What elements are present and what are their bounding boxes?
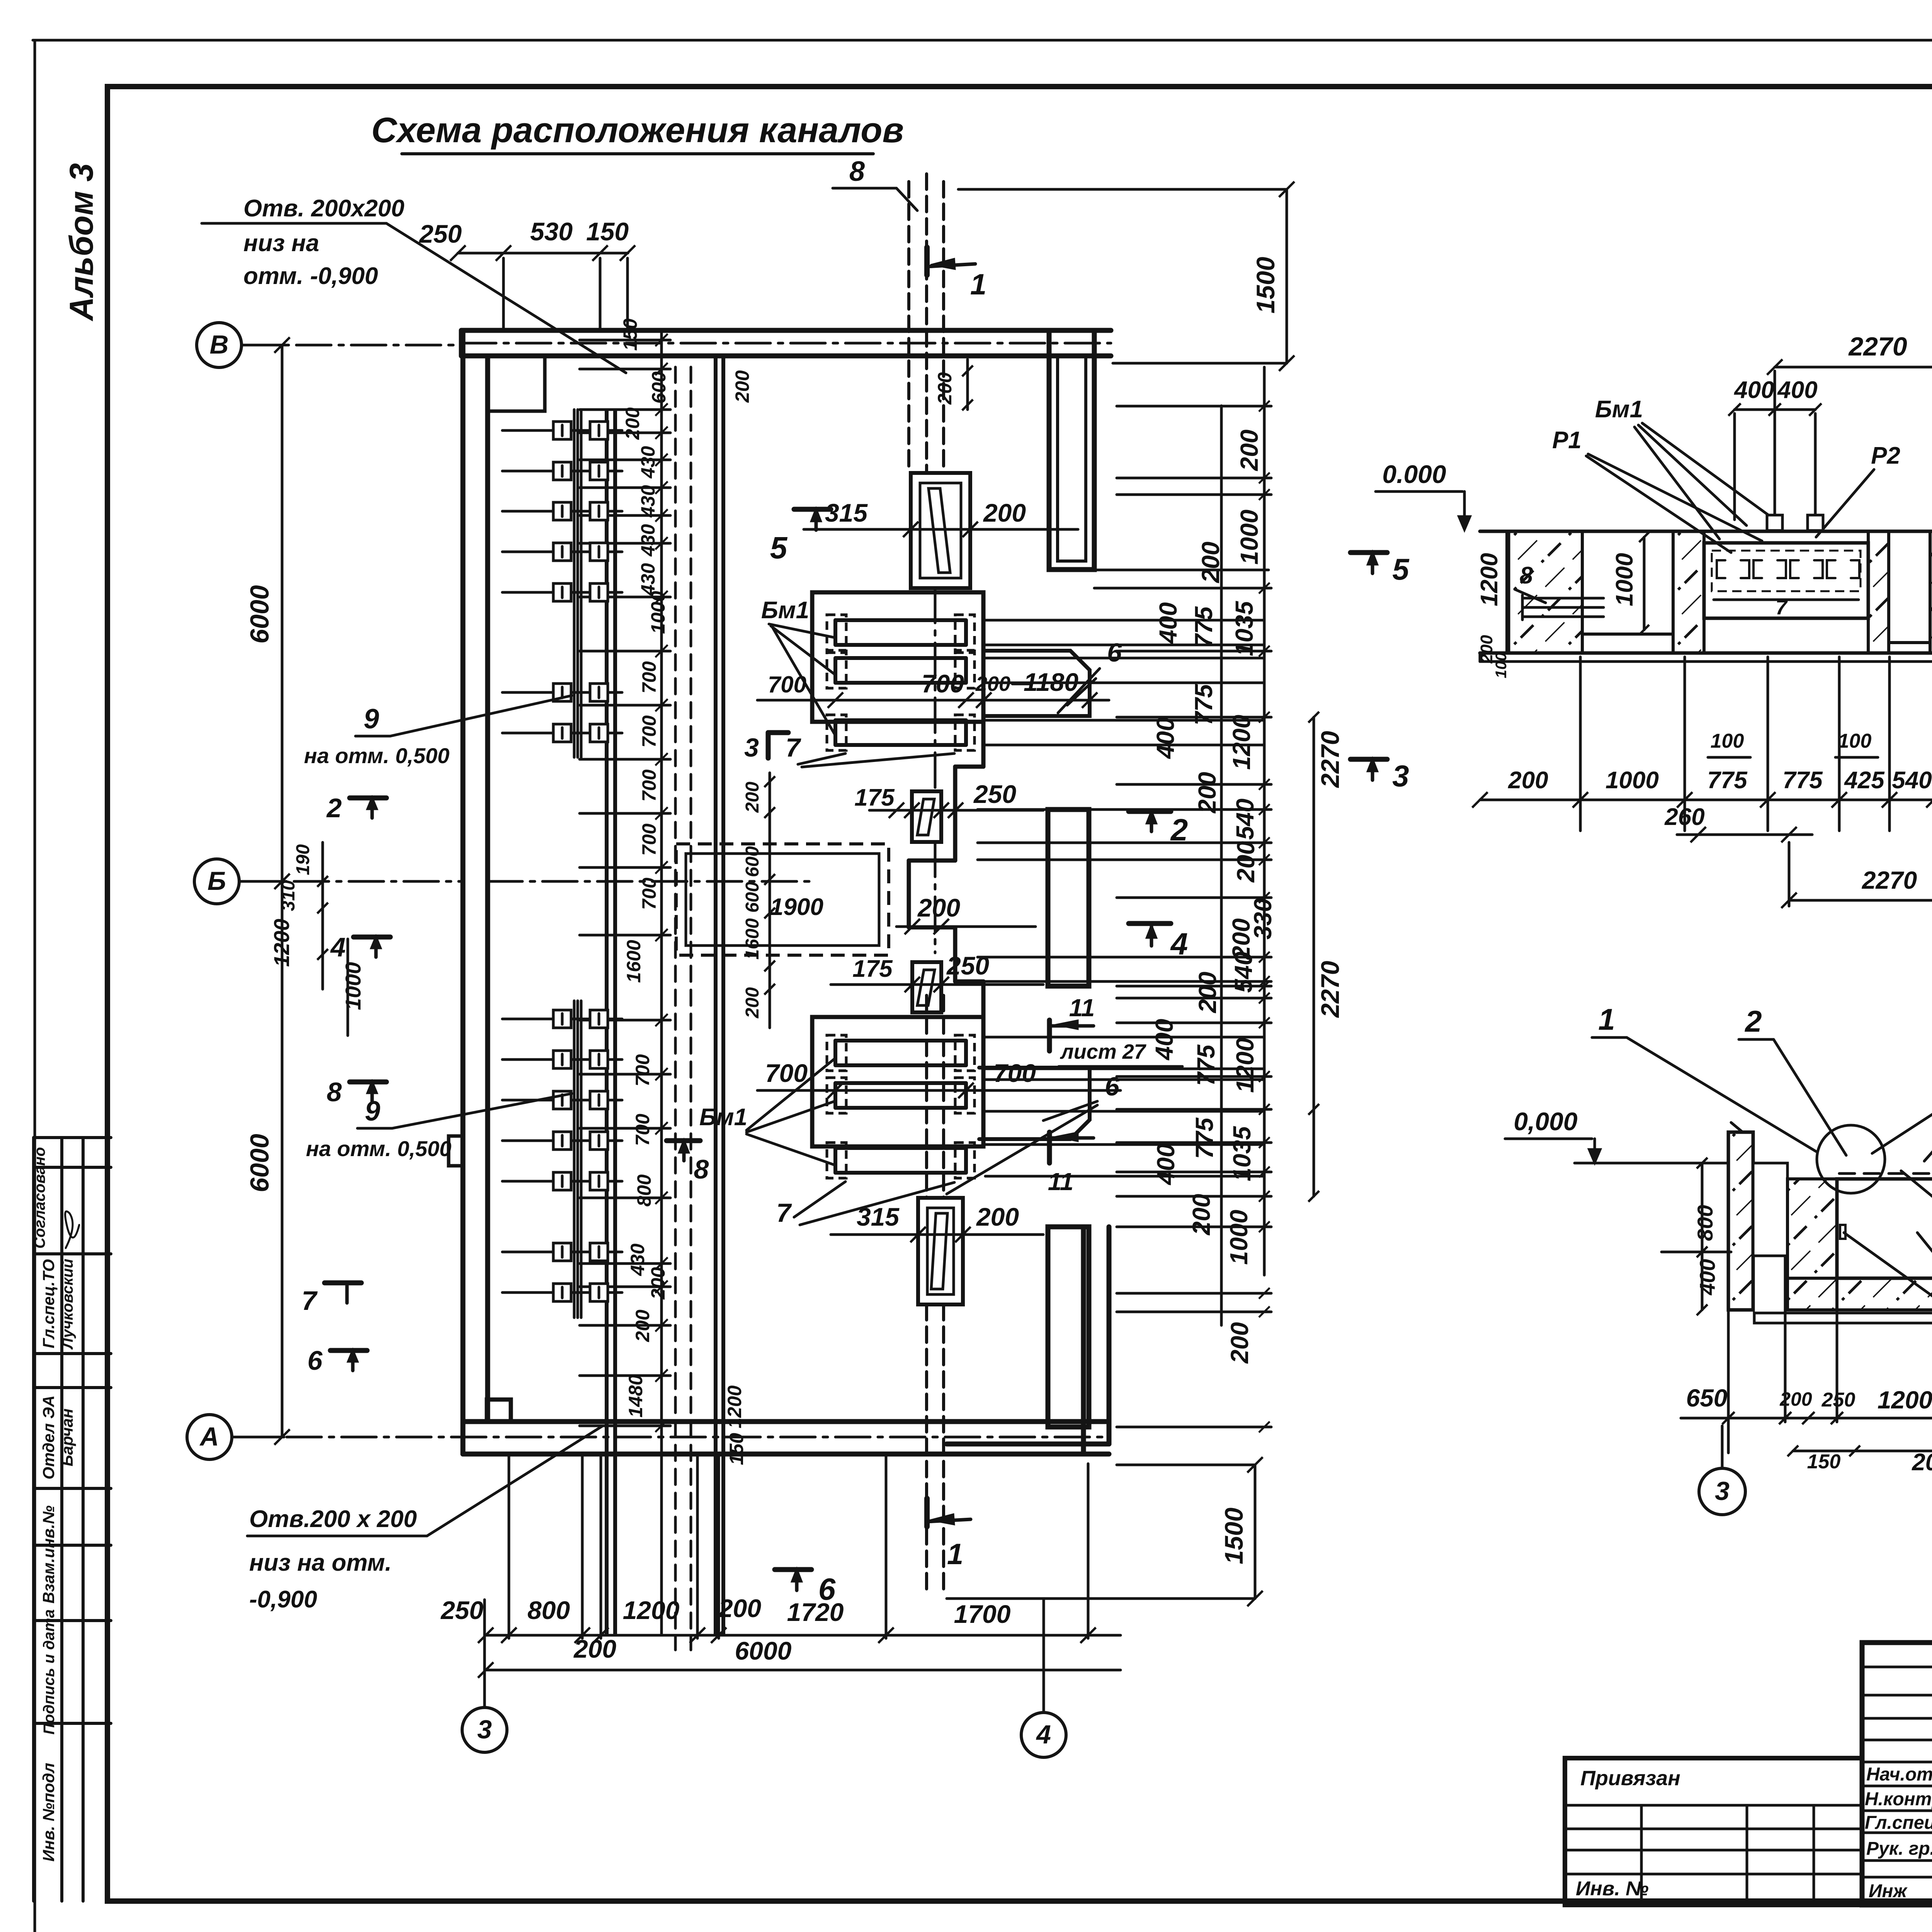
svg-text:2: 2 (326, 793, 342, 823)
svg-text:800: 800 (633, 1174, 655, 1207)
svg-text:775: 775 (1190, 1117, 1218, 1159)
pipe dashed top (907, 182, 910, 473)
svg-text:Отв.200 х 200: Отв.200 х 200 (249, 1506, 417, 1532)
corridor wall right (714, 356, 718, 1634)
svg-text:Нач.отд: Нач.отд (1866, 1764, 1932, 1785)
plan left wall inner (485, 356, 490, 1422)
anchor bolt row (502, 1291, 622, 1294)
svg-text:8: 8 (694, 1154, 709, 1184)
section2 pier (1787, 1179, 1837, 1310)
plan bottom wall notch (487, 1400, 511, 1422)
section mark 11 list27 (1047, 1020, 1052, 1051)
stepped channel throat walls (981, 718, 986, 767)
section marker 5 plan (794, 507, 831, 512)
svg-text:1: 1 (1598, 1002, 1615, 1036)
svg-text:400: 400 (1777, 377, 1817, 403)
section marker 4 (1129, 921, 1171, 926)
svg-text:3: 3 (1392, 759, 1409, 793)
lower assembly arm (979, 1068, 1090, 1139)
svg-text:4: 4 (330, 932, 346, 962)
section marker 6 (330, 1348, 367, 1353)
axis V (197, 323, 241, 367)
cut marker 5 (1350, 550, 1387, 555)
section mark 1 bottom (924, 1498, 930, 1527)
svg-text:7: 7 (776, 1198, 792, 1228)
svg-text:200: 200 (622, 407, 643, 440)
svg-text:775: 775 (1190, 684, 1218, 725)
svg-text:лист 27: лист 27 (1060, 1040, 1147, 1063)
central pit dashed (676, 844, 889, 955)
floor slot (911, 473, 970, 588)
svg-text:700: 700 (638, 769, 660, 802)
svg-text:400: 400 (1695, 1259, 1719, 1295)
section2 base plate left (1754, 1313, 1932, 1323)
svg-text:Рук. гр.: Рук. гр. (1866, 1838, 1932, 1859)
svg-text:6: 6 (1107, 638, 1122, 667)
corridor dashed channel (674, 367, 677, 1650)
section1 left dims (1508, 531, 1510, 653)
stamp signature (65, 1211, 79, 1248)
svg-text:400: 400 (1733, 377, 1774, 403)
svg-text:200: 200 (718, 1594, 761, 1622)
svg-text:0.000: 0.000 (1382, 460, 1446, 488)
section2 bottom dims (1681, 1417, 1932, 1420)
svg-text:Барчан: Барчан (58, 1408, 76, 1466)
section mark 1 top (924, 247, 930, 275)
beam bar (835, 1081, 966, 1085)
svg-text:1035: 1035 (1228, 1126, 1256, 1181)
svg-text:775: 775 (1190, 606, 1218, 648)
svg-text:В: В (209, 330, 228, 359)
plan centre axis vertical (934, 588, 937, 791)
pipes 8 left (1522, 597, 1604, 600)
svg-text:100: 100 (1493, 653, 1510, 679)
svg-text:400: 400 (1152, 1144, 1180, 1186)
svg-text:1200: 1200 (1231, 1038, 1259, 1093)
svg-text:200: 200 (742, 987, 763, 1019)
dim 1500 top right (1286, 189, 1288, 363)
svg-text:1600: 1600 (742, 918, 763, 959)
anchor bolt row (502, 1251, 622, 1253)
section1 base prep (1480, 660, 1932, 663)
svg-text:0,000: 0,000 (1514, 1107, 1577, 1136)
corridor dimension chain (660, 332, 663, 1634)
anchor bolt row (502, 510, 622, 513)
svg-text:2270: 2270 (1848, 332, 1907, 361)
section1 pier (1673, 531, 1704, 653)
svg-text:Согласовано: Согласовано (31, 1147, 48, 1249)
svg-text:700: 700 (768, 672, 806, 697)
svg-text:1200: 1200 (269, 919, 294, 967)
upper assembly arm (984, 651, 1090, 716)
svg-text:530: 530 (530, 217, 573, 246)
svg-text:250: 250 (1821, 1389, 1855, 1411)
svg-text:250: 250 (973, 780, 1016, 808)
bar extension lines (985, 619, 1264, 622)
anchor bolt (1767, 515, 1782, 531)
svg-text:Бм1: Бм1 (1595, 396, 1643, 423)
svg-text:190: 190 (293, 844, 313, 875)
svg-text:200: 200 (1235, 430, 1263, 471)
svg-text:425: 425 (1844, 767, 1885, 794)
anchor bolt row (502, 551, 622, 553)
svg-text:600: 600 (742, 846, 763, 877)
anchor bolt row (502, 732, 622, 735)
beam bar (835, 618, 966, 622)
svg-text:150: 150 (619, 318, 641, 351)
svg-text:8: 8 (1520, 562, 1533, 589)
svg-text:отм. -0,900: отм. -0,900 (243, 263, 378, 289)
plan left wall outer (461, 330, 466, 1454)
svg-text:150: 150 (1807, 1451, 1841, 1473)
svg-text:700: 700 (922, 669, 964, 698)
floor slot (912, 962, 941, 1012)
svg-text:260: 260 (1664, 804, 1704, 830)
svg-text:4: 4 (1036, 1720, 1051, 1749)
svg-text:400: 400 (1151, 718, 1179, 760)
section2 ground (1575, 1162, 1728, 1165)
svg-text:100: 100 (1711, 730, 1744, 752)
section mark 3-7 (766, 733, 771, 758)
svg-text:430: 430 (637, 524, 659, 557)
section2 left wall (1728, 1132, 1753, 1310)
svg-text:6000: 6000 (245, 585, 274, 643)
svg-text:Гл.спец.: Гл.спец. (1865, 1813, 1932, 1833)
anchor bolt row (502, 429, 622, 432)
svg-text:1720: 1720 (787, 1598, 844, 1626)
svg-text:1000: 1000 (1225, 1210, 1253, 1265)
svg-text:700: 700 (632, 1114, 653, 1146)
corridor wall (605, 411, 609, 1634)
right extension lines (978, 808, 1271, 811)
svg-text:200: 200 (1232, 841, 1260, 883)
plan top-right pier (1049, 330, 1094, 570)
channel profiles strip (1712, 551, 1861, 591)
svg-text:775: 775 (1782, 767, 1823, 794)
svg-text:1700: 1700 (954, 1600, 1011, 1628)
svg-text:200: 200 (742, 782, 763, 813)
svg-text:775: 775 (1192, 1044, 1220, 1086)
svg-text:Подпись и дата: Подпись и дата (41, 1609, 58, 1735)
svg-text:Гл.спец.ТО: Гл.спец.ТО (39, 1259, 58, 1349)
section1 hatched wall left (1507, 531, 1582, 653)
axis B (194, 859, 239, 904)
svg-text:1200: 1200 (623, 1596, 680, 1624)
section1 channel mid-left (1889, 531, 1930, 643)
svg-text:6000: 6000 (245, 1134, 274, 1192)
svg-text:650: 650 (1686, 1384, 1728, 1412)
svg-text:на отм. 0,500: на отм. 0,500 (306, 1136, 451, 1161)
section marker 4 (354, 935, 390, 940)
anchor bolt row (502, 470, 622, 473)
svg-text:низ на отм.: низ на отм. (249, 1549, 392, 1576)
svg-text:2: 2 (1744, 1004, 1762, 1038)
svg-text:3: 3 (744, 733, 759, 762)
svg-text:1000: 1000 (1235, 510, 1263, 565)
section marker 6 plan bottom (775, 1567, 811, 1572)
section mark 11 lower (1047, 1132, 1052, 1163)
svg-text:1000: 1000 (341, 962, 365, 1010)
axis 3 circle (462, 1708, 507, 1752)
section1 bottom slab (1480, 651, 1932, 655)
left stamp column (32, 1138, 35, 1901)
anchor bolt (1808, 515, 1823, 531)
svg-text:700: 700 (638, 715, 660, 748)
svg-text:200: 200 (1187, 1194, 1215, 1236)
axis 3 circle section2 (1699, 1468, 1745, 1515)
cut marker 3 (1350, 757, 1387, 762)
section marker 8 (350, 1080, 386, 1085)
anchor bolt row (502, 591, 622, 594)
svg-text:540: 540 (1230, 952, 1257, 993)
svg-text:200: 200 (976, 1202, 1019, 1231)
anchor bolt row (502, 1099, 622, 1102)
svg-text:700: 700 (632, 1054, 653, 1087)
section marker 8 corridor (667, 1138, 700, 1143)
svg-text:5: 5 (770, 531, 788, 565)
svg-text:430: 430 (637, 563, 659, 596)
svg-text:Лучковский: Лучковский (59, 1259, 76, 1350)
svg-text:А: А (199, 1422, 219, 1451)
svg-text:11: 11 (1048, 1168, 1073, 1196)
svg-text:700: 700 (638, 661, 660, 694)
svg-text:200: 200 (1193, 772, 1221, 814)
svg-text:250: 250 (946, 951, 989, 980)
svg-text:5: 5 (1392, 552, 1410, 586)
plan bottom dims (486, 1634, 1121, 1637)
axis 4 circle (1021, 1713, 1066, 1757)
beam bar (835, 1039, 966, 1043)
anchor bolt row (502, 691, 622, 694)
sheet edge top (33, 39, 1932, 42)
svg-text:1900: 1900 (770, 894, 823, 920)
svg-text:Р1: Р1 (1552, 427, 1582, 454)
svg-text:700: 700 (993, 1059, 1036, 1087)
dim 1500 bottom right (1254, 1465, 1257, 1599)
svg-text:8: 8 (849, 156, 865, 187)
svg-text:200: 200 (934, 372, 956, 405)
svg-text:Привязан: Привязан (1580, 1767, 1680, 1790)
svg-text:8: 8 (327, 1077, 342, 1107)
plan bottom wall (463, 1419, 1109, 1424)
svg-text:1480: 1480 (625, 1374, 646, 1417)
svg-text:310: 310 (278, 880, 299, 911)
privyazan box (1565, 1758, 1862, 1905)
floor slot (918, 1198, 963, 1304)
svg-text:Взам.инв.№: Взам.инв.№ (39, 1505, 58, 1604)
svg-text:700: 700 (638, 823, 660, 856)
svg-text:1: 1 (947, 1538, 963, 1571)
plan right wall corner (1081, 1227, 1086, 1454)
svg-text:Отдел ЭА: Отдел ЭА (39, 1395, 58, 1480)
svg-text:2270: 2270 (1862, 866, 1917, 894)
lower cluster rails (573, 1001, 576, 1318)
section2 pit floor hatch (1787, 1278, 1932, 1310)
svg-text:1200: 1200 (724, 1385, 745, 1428)
svg-text:6: 6 (308, 1345, 323, 1376)
svg-text:100: 100 (1838, 730, 1872, 752)
svg-text:175: 175 (854, 784, 895, 811)
svg-text:700: 700 (765, 1059, 808, 1087)
svg-text:1000: 1000 (647, 591, 669, 634)
svg-text:600: 600 (648, 371, 670, 404)
svg-text:1035: 1035 (1230, 600, 1258, 656)
top dims (458, 252, 628, 255)
svg-text:7: 7 (786, 733, 801, 762)
svg-text:1600: 1600 (623, 940, 645, 983)
plan top wall (461, 328, 1111, 333)
svg-text:3: 3 (1715, 1476, 1730, 1506)
svg-text:1200: 1200 (1228, 715, 1255, 770)
section2 slot left (1753, 1163, 1787, 1256)
svg-text:315: 315 (857, 1202, 900, 1231)
svg-text:400: 400 (1154, 602, 1182, 645)
svg-text:низ на: низ на (243, 230, 319, 257)
svg-text:Отв. 200х200: Отв. 200х200 (243, 195, 405, 222)
section1 top surface (1480, 530, 1932, 533)
svg-text:1000: 1000 (1611, 553, 1638, 606)
svg-text:-0,900: -0,900 (249, 1586, 317, 1613)
pipe dashed middle (925, 995, 928, 1198)
svg-text:200: 200 (917, 893, 960, 922)
floor slot (912, 791, 941, 842)
svg-text:150: 150 (586, 217, 629, 246)
svg-text:200: 200 (1197, 542, 1225, 583)
svg-text:Бм1: Бм1 (699, 1104, 747, 1131)
right dim verticals (1220, 406, 1223, 1325)
svg-text:Р2: Р2 (1871, 442, 1900, 469)
svg-text:200: 200 (573, 1634, 616, 1663)
svg-text:430: 430 (637, 446, 659, 479)
dashed channel in slab (1839, 1172, 1932, 1175)
plan small room (488, 356, 545, 411)
beam bar (835, 1146, 966, 1150)
plan mid-right pier (1048, 810, 1089, 986)
svg-text:800: 800 (527, 1596, 570, 1624)
pipe dashed bottom (925, 1304, 928, 1594)
svg-text:Бм1: Бм1 (761, 597, 809, 624)
svg-text:Альбом 3: Альбом 3 (63, 163, 100, 321)
svg-text:200: 200 (647, 1267, 669, 1300)
section1 pier2b (1930, 531, 1932, 653)
svg-text:Инв. №: Инв. № (1576, 1878, 1649, 1900)
beam assembly Bm1 outline (812, 592, 983, 722)
svg-text:430: 430 (637, 485, 659, 518)
plan lower-right pier (1048, 1227, 1089, 1427)
svg-text:800: 800 (1693, 1205, 1717, 1241)
svg-text:Н.контр: Н.контр (1865, 1789, 1932, 1810)
section1 channel left (1582, 531, 1673, 634)
svg-text:2270: 2270 (1316, 961, 1344, 1018)
svg-text:на отм. 0,500: на отм. 0,500 (304, 743, 449, 768)
axis A (187, 1415, 232, 1459)
svg-text:Инж: Инж (1869, 1881, 1908, 1901)
svg-text:1000: 1000 (1605, 767, 1659, 794)
svg-text:200: 200 (983, 498, 1026, 527)
svg-text:6000: 6000 (735, 1636, 792, 1665)
svg-text:1: 1 (970, 268, 986, 301)
svg-text:Б: Б (207, 866, 226, 896)
svg-text:200: 200 (1508, 767, 1548, 794)
section1 dims 400 400 left (1735, 408, 1815, 411)
sheet edge left (34, 40, 36, 1932)
svg-text:200: 200 (731, 370, 753, 403)
svg-text:Схема расположения каналов: Схема расположения каналов (371, 111, 904, 150)
svg-text:600: 600 (742, 882, 763, 913)
svg-text:540: 540 (1231, 799, 1259, 840)
svg-text:1200: 1200 (1476, 553, 1503, 606)
anchor bolt row (502, 1180, 622, 1183)
section marker 2 (1129, 809, 1171, 814)
svg-text:315: 315 (825, 498, 868, 527)
svg-text:11: 11 (1069, 994, 1095, 1022)
svg-text:1500: 1500 (1219, 1507, 1248, 1564)
svg-text:775: 775 (1707, 767, 1748, 794)
svg-text:200: 200 (632, 1310, 653, 1342)
beam bar (835, 718, 966, 722)
plan left wall notch (449, 1136, 463, 1166)
svg-text:400: 400 (1150, 1019, 1178, 1061)
svg-text:7: 7 (302, 1286, 318, 1316)
svg-text:540: 540 (1892, 767, 1932, 794)
svg-text:2270: 2270 (1316, 731, 1344, 788)
svg-text:9: 9 (364, 704, 379, 735)
detail circle (1817, 1125, 1885, 1193)
svg-text:7: 7 (1776, 596, 1788, 619)
section marker 2 (350, 796, 386, 801)
svg-text:430: 430 (627, 1243, 648, 1276)
section2 pit (1837, 1179, 1932, 1278)
section marker 7 (325, 1281, 361, 1286)
svg-text:175: 175 (852, 956, 893, 982)
svg-text:200: 200 (1912, 1449, 1932, 1476)
anchor bolt row (502, 1018, 622, 1020)
svg-text:200: 200 (1194, 972, 1221, 1014)
svg-text:250: 250 (440, 1596, 483, 1624)
svg-text:Инв. №подл: Инв. №подл (39, 1763, 58, 1862)
section1 bottom chains (1480, 799, 1932, 801)
svg-text:200: 200 (1226, 1322, 1253, 1364)
dim 6000 left (281, 345, 284, 1437)
anchor bolt row (502, 1058, 622, 1061)
section1 box left (1704, 543, 1868, 618)
svg-text:1500: 1500 (1251, 257, 1280, 313)
section1 top dims 2270 (1775, 366, 1932, 369)
beam bar (835, 656, 966, 660)
upper cluster rails (573, 410, 576, 757)
svg-text:1200: 1200 (1878, 1386, 1932, 1414)
section1 pier2 (1868, 531, 1889, 653)
svg-text:250: 250 (418, 219, 462, 248)
small anchors in pit (1840, 1225, 1845, 1239)
svg-text:3: 3 (477, 1715, 492, 1744)
anchor bolt row (502, 1139, 622, 1142)
beam assembly Bm1 outline (812, 1017, 983, 1146)
axis line through top wall (461, 342, 1111, 345)
